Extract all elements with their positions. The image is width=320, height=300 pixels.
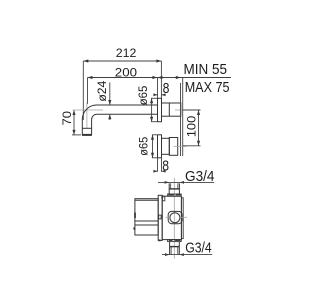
mounting plate: [158, 195, 162, 240]
bottom cylinder small: [162, 138, 170, 154]
centerline through wall top: [175, 109, 187, 111]
svg-text:ø24: ø24: [95, 80, 109, 101]
dim MIN55 MAX75 line: [157, 78, 231, 99]
dim 200 line: [88, 78, 158, 105]
svg-text:MAX 75: MAX 75: [185, 80, 230, 96]
svg-text:70: 70: [60, 111, 74, 126]
dim 212 arrows: [83, 59, 161, 62]
top cylinder seam: [168, 103, 170, 116]
plate top dark corner: [161, 196, 163, 198]
dim 8 top: [154, 94, 166, 96]
centerline through wall bottom: [174, 145, 187, 147]
cartridge circle: [170, 213, 180, 223]
spout centerline vertical: [86, 103, 88, 129]
dim o65 top: [151, 98, 158, 121]
top flange plate: [158, 98, 162, 121]
body top-left notch: [162, 196, 165, 201]
dim MIN55 MAX75 arrows: [157, 76, 180, 79]
svg-text:ø65: ø65: [136, 136, 150, 155]
box left clip thick segment: [134, 213, 136, 219]
dim G3/4 bottom: [162, 254, 212, 256]
dim 212 line: [83, 61, 161, 120]
valve top pipe: [169, 183, 179, 194]
dim 200 arrows: [88, 76, 158, 79]
spout centerline horizontal: [73, 109, 104, 111]
cartridge centerline: [166, 216, 170, 218]
dim o24: [109, 83, 111, 120]
dim 8 bottom: [154, 158, 166, 172]
dim 70: [72, 110, 81, 135]
valve bottom nut: [168, 240, 182, 242]
plate bottom dark corner: [158, 240, 160, 242]
spout aerator band: [82, 127, 91, 129]
svg-text:8: 8: [163, 80, 170, 97]
dim o65 bottom: [152, 135, 158, 158]
dim 100: [183, 110, 201, 146]
svg-text:8: 8: [162, 157, 169, 174]
wall lines: [181, 83, 183, 156]
box left nub: [133, 227, 135, 229]
dim G3/4 top: [158, 181, 214, 183]
svg-text:G3/4: G3/4: [185, 241, 212, 257]
svg-text:100: 100: [184, 115, 198, 137]
bottom flange plate: [158, 135, 162, 158]
valve top nut: [168, 194, 182, 196]
valve centerline: [173, 178, 175, 259]
top cylinder: [162, 103, 181, 116]
rough-in box: [135, 199, 158, 235]
svg-text:G3/4: G3/4: [185, 169, 215, 185]
plate left tab: [159, 215, 161, 219]
spout outlet tip: [82, 134, 92, 136]
spout outline: [82, 105, 158, 135]
cartridge boss: [168, 211, 182, 223]
svg-text:200: 200: [115, 66, 137, 80]
bottom cylinder large: [169, 138, 177, 156]
svg-text:ø65: ø65: [136, 85, 150, 105]
valve body: [162, 196, 181, 239]
svg-text:212: 212: [116, 46, 137, 60]
valve bottom pipe: [170, 242, 180, 255]
valve right cover: [181, 198, 183, 239]
svg-text:MIN 55: MIN 55: [184, 62, 228, 78]
